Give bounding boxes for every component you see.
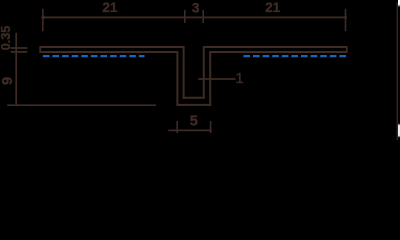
bottom long extension line	[7, 104, 156, 106]
svg-text:21: 21	[102, 0, 118, 15]
channel outer left wall	[176, 51, 178, 106]
svg-text:1: 1	[235, 70, 243, 87]
top dimension middle tick right	[202, 10, 204, 23]
white margin sliver top-right	[398, 0, 400, 7]
sheet bottom surface line right	[209, 51, 347, 53]
top dimension right end tick	[345, 9, 347, 31]
bottom dimension left tick	[176, 121, 178, 133]
sheet top surface line right	[203, 46, 347, 48]
bottom dimension right tick	[210, 121, 212, 133]
svg-text:5: 5	[190, 114, 198, 130]
blue dashed centerline left segment	[43, 55, 145, 57]
left vertical dimension line	[15, 33, 17, 106]
thickness extension bar top	[11, 47, 28, 49]
leader line to label 1	[198, 78, 235, 80]
channel inner right wall	[203, 46, 205, 99]
svg-text:0.35: 0.35	[0, 26, 13, 51]
top dimension line	[43, 16, 346, 18]
channel inner left wall	[183, 46, 185, 99]
channel outer right wall	[209, 51, 211, 106]
white margin sliver bottom-right	[398, 123, 400, 137]
svg-text:3: 3	[192, 0, 200, 15]
sheet bottom surface line left	[40, 51, 178, 53]
blue dashed centerline right segment	[243, 55, 346, 57]
sheet left end cap	[39, 46, 41, 53]
channel inner bottom line	[183, 97, 205, 99]
bottom dimension line	[168, 129, 212, 131]
top dimension middle tick left	[184, 10, 186, 23]
channel outer bottom line	[176, 104, 211, 106]
top dimension left end tick	[42, 9, 44, 31]
sheet top surface line left	[40, 46, 185, 48]
svg-text:9: 9	[0, 77, 16, 85]
svg-text:21: 21	[265, 0, 281, 15]
top dimension right end dot	[344, 16, 347, 19]
sheet right end cap	[346, 46, 348, 53]
thickness extension bar bottom	[11, 51, 28, 53]
top dimension left end dot	[41, 16, 45, 20]
right border vertical line	[396, 2, 398, 140]
